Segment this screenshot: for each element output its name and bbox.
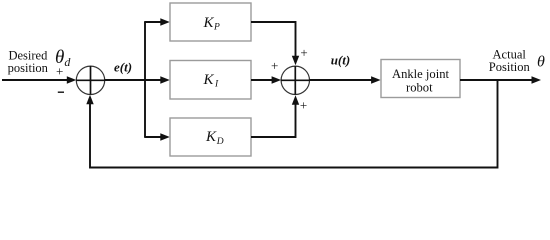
svg-text:K: K [203, 15, 215, 31]
svg-text:K: K [205, 129, 217, 145]
wire branch to KP [144, 21, 161, 23]
summing junction S1 [76, 66, 104, 94]
svg-text:K: K [203, 72, 215, 88]
wire e(t) to KI [105, 79, 161, 81]
svg-text:u(t): u(t) [331, 53, 351, 68]
wire u(t) to plant [310, 79, 373, 81]
svg-text:robot: robot [406, 81, 433, 95]
block KP [170, 3, 251, 41]
svg-text:D: D [216, 137, 224, 147]
wire branch vertical [144, 22, 146, 137]
svg-text:+: + [300, 98, 307, 113]
block Ankle joint robot [381, 60, 460, 98]
wire output [460, 79, 532, 81]
svg-text:Position: Position [489, 60, 531, 74]
wire KD output to S2 [251, 104, 296, 137]
svg-text:+: + [56, 63, 63, 78]
label Actual Position [489, 47, 531, 73]
wire input [2, 79, 68, 81]
svg-text:position: position [8, 61, 49, 75]
label Desired position [8, 49, 49, 75]
svg-text:Ankle joint: Ankle joint [392, 67, 450, 81]
wire feedback [90, 80, 498, 168]
svg-text:θ: θ [537, 54, 545, 71]
wire branch to KD [144, 136, 161, 138]
svg-text:P: P [213, 23, 220, 33]
summing junction S2 [281, 66, 309, 94]
minus sign at summing junction S1 [58, 91, 64, 93]
wire KP output to S2 [251, 22, 296, 56]
block KI [170, 61, 251, 100]
svg-text:+: + [271, 58, 278, 73]
svg-text:+: + [300, 45, 307, 60]
block KD [170, 118, 251, 156]
wire KI output to S2 [251, 79, 273, 81]
svg-text:e(t): e(t) [114, 60, 132, 75]
